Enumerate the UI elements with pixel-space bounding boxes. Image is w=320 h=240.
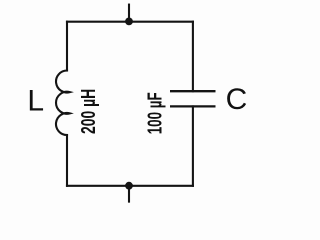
wire left upper (66, 22, 68, 71)
svg-text:100 µF: 100 µF (142, 92, 166, 134)
wire bottom terminal stub (128, 186, 130, 202)
inductor L coil (56, 71, 70, 136)
wire top (67, 21, 193, 23)
node junction dot bottom (125, 182, 133, 190)
wire right upper (192, 22, 194, 92)
svg-text:L: L (27, 85, 44, 118)
svg-text:200 µH: 200 µH (76, 89, 99, 134)
wire bottom (67, 185, 193, 187)
node junction dot top (125, 18, 133, 26)
wire right lower (192, 106, 194, 185)
capacitor C bottom plate (170, 105, 216, 107)
wire left lower (66, 135, 68, 186)
capacitor C top plate (170, 90, 216, 92)
svg-text:C: C (226, 83, 248, 116)
wire top terminal stub (128, 5, 130, 22)
